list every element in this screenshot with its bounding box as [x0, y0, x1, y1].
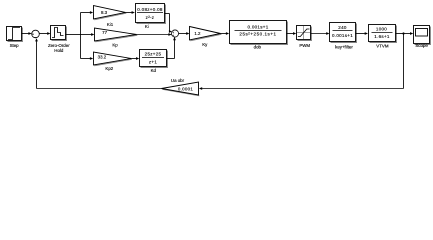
svg-text:Kp2: Kp2 — [105, 66, 113, 71]
sink block Scope — [414, 26, 431, 49]
wire VTVM to Scope — [396, 32, 414, 35]
wire ZOH output to branch node — [66, 13, 81, 59]
svg-text:0.0001: 0.0001 — [178, 86, 193, 91]
gain Ky (1.2) — [190, 27, 222, 48]
svg-text:1.6s+1: 1.6s+1 — [374, 34, 390, 39]
svg-text:Kd: Kd — [151, 68, 157, 73]
svg-text:25s²+250.1s+1: 25s²+250.1s+1 — [239, 32, 276, 37]
block Zero-Order Hold — [48, 26, 70, 53]
svg-text:Ki1: Ki1 — [107, 22, 114, 27]
svg-text:240: 240 — [338, 25, 347, 30]
svg-text:Ua obr: Ua obr — [171, 78, 185, 83]
svg-text:Ky: Ky — [202, 42, 208, 47]
plant transfer fcn dob — [230, 21, 288, 50]
wire gain Ki1 to TF Ki — [126, 11, 135, 14]
svg-text:0.001s+1: 0.001s+1 — [247, 24, 268, 29]
wire Sum1 to Zero-Order Hold — [39, 32, 50, 35]
wire branch to gain Ki1 — [81, 11, 94, 14]
svg-text:z+1: z+1 — [149, 59, 157, 64]
wire branch to gain Kp — [81, 33, 95, 36]
svg-text:key+filter: key+filter — [335, 44, 353, 49]
gain Kp2 (33.2) bottom branch — [94, 52, 132, 71]
feedback wire to Sum1 — [35, 38, 161, 88]
svg-text:0.001s+1: 0.001s+1 — [332, 33, 353, 38]
gain Ki1 (8.3) top branch — [94, 6, 127, 28]
svg-text:0.08z+0.08: 0.08z+0.08 — [137, 7, 163, 12]
wire gain Kp2 to TF Kd — [131, 57, 139, 60]
summing junction Sum1 — [32, 30, 40, 40]
feedback wire down from branch node — [199, 34, 404, 90]
svg-text:Kp: Kp — [112, 42, 118, 47]
wire plant to PWM — [287, 32, 297, 35]
svg-text:+: + — [172, 34, 174, 38]
svg-text:Scope: Scope — [415, 43, 428, 48]
saturation block PWM — [297, 26, 312, 49]
summing junction Sum2 — [171, 30, 178, 38]
discrete transfer fcn Kd — [140, 50, 168, 74]
gain Kp (77) middle branch — [95, 28, 138, 47]
wire gain Kp to Sum2 — [137, 33, 172, 36]
branch node on VTVM output — [402, 32, 404, 34]
meter transfer fcn VTVM — [369, 25, 397, 49]
svg-text:PWM: PWM — [299, 43, 310, 48]
svg-text:Step: Step — [10, 43, 20, 48]
svg-text:Ki: Ki — [145, 24, 149, 29]
svg-text:33.2: 33.2 — [98, 54, 107, 59]
step source block Step — [7, 27, 23, 49]
svg-text:Hold: Hold — [54, 48, 64, 53]
svg-text:VTVM: VTVM — [376, 44, 389, 49]
wire branch to gain Kp2 — [81, 57, 94, 60]
wire Sum2 to gain Ky — [179, 32, 190, 35]
amplifier transfer fcn key+filter — [330, 23, 357, 50]
wire PWM to amplifier — [311, 32, 330, 35]
discrete transfer fcn Ki — [136, 4, 166, 30]
svg-text:1000: 1000 — [376, 27, 387, 32]
feedback gain Ua obr (0.0001) — [162, 78, 200, 96]
svg-text:dob: dob — [254, 45, 262, 50]
svg-text:8.3: 8.3 — [101, 10, 108, 15]
wire gain Ky to plant — [221, 32, 230, 35]
svg-text:77: 77 — [102, 30, 107, 35]
wire TF Kd up to Sum2 — [167, 37, 176, 59]
wire Step to Sum1 — [22, 32, 32, 35]
svg-text:z²-z: z²-z — [146, 15, 155, 20]
wire TF Ki down to Sum2 — [165, 14, 173, 33]
svg-text:1.2: 1.2 — [194, 31, 201, 36]
wire amplifier to VTVM — [356, 32, 369, 35]
svg-text:25z+25: 25z+25 — [145, 52, 162, 57]
